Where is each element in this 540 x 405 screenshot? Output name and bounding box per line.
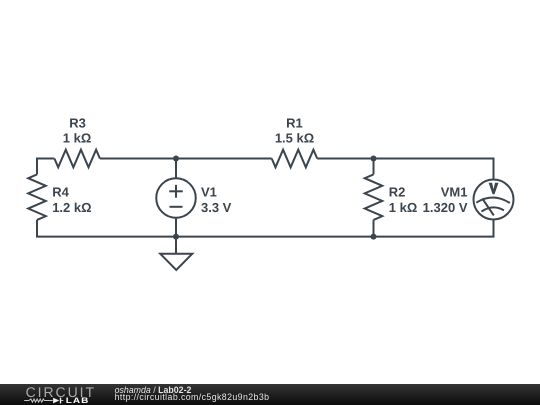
svg-text:VM1: VM1 (441, 185, 468, 200)
VM1 needle (482, 199, 494, 216)
wire R2 bottom stub (373, 220, 375, 237)
svg-text:1 kΩ: 1 kΩ (63, 131, 92, 146)
node dot bottom V1 (173, 234, 179, 240)
resistor R1 (272, 150, 318, 168)
svg-text:1.2 kΩ: 1.2 kΩ (52, 200, 91, 215)
VM1 meter lower arc (481, 207, 504, 211)
svg-text:1.5 kΩ: 1.5 kΩ (275, 131, 314, 146)
svg-text:R1: R1 (286, 115, 303, 130)
svg-text:1 kΩ: 1 kΩ (389, 200, 418, 215)
svg-text:3.3 V: 3.3 V (201, 200, 232, 215)
node dot top R2 (371, 156, 377, 162)
wire bottom-left corner (R4 bottom to bottom rail) (37, 220, 176, 237)
wire bottom rail (176, 220, 494, 237)
svg-text:R2: R2 (389, 185, 406, 200)
VM1 meter upper arc (476, 198, 510, 203)
ground stub (175, 237, 177, 254)
wire top right (R1 to VM1 top) (317, 159, 493, 180)
resistor R3 (54, 150, 100, 168)
wire V1 top stub (175, 159, 177, 179)
footer line 2 (115, 392, 270, 402)
svg-text:1.320 V: 1.320 V (423, 200, 468, 215)
wire top middle (R3 to R1) (100, 158, 272, 160)
voltmeter VM1 (474, 180, 514, 220)
wire R2 top stub (373, 159, 375, 175)
V1 minus sign (170, 206, 183, 208)
svg-text:R3: R3 (69, 115, 86, 130)
node dot top V1 (173, 156, 179, 162)
footer line 1 (115, 385, 192, 395)
VM1 V marking (489, 183, 499, 194)
svg-text:V1: V1 (201, 185, 217, 200)
resistor R4 (28, 174, 46, 220)
voltage source V1 (156, 178, 196, 218)
V1 plus sign (169, 190, 183, 192)
wire V1 bottom stub (175, 218, 177, 237)
wire top-left corner (R4 top to R3 left) (37, 159, 54, 175)
svg-text:LAB: LAB (66, 396, 90, 405)
node dot bottom R2 (371, 234, 377, 240)
resistor R2 (365, 174, 383, 220)
ground symbol (160, 254, 192, 270)
svg-text:R4: R4 (52, 185, 69, 200)
footer bar (0, 384, 540, 405)
CircuitLab logo (20, 383, 110, 405)
